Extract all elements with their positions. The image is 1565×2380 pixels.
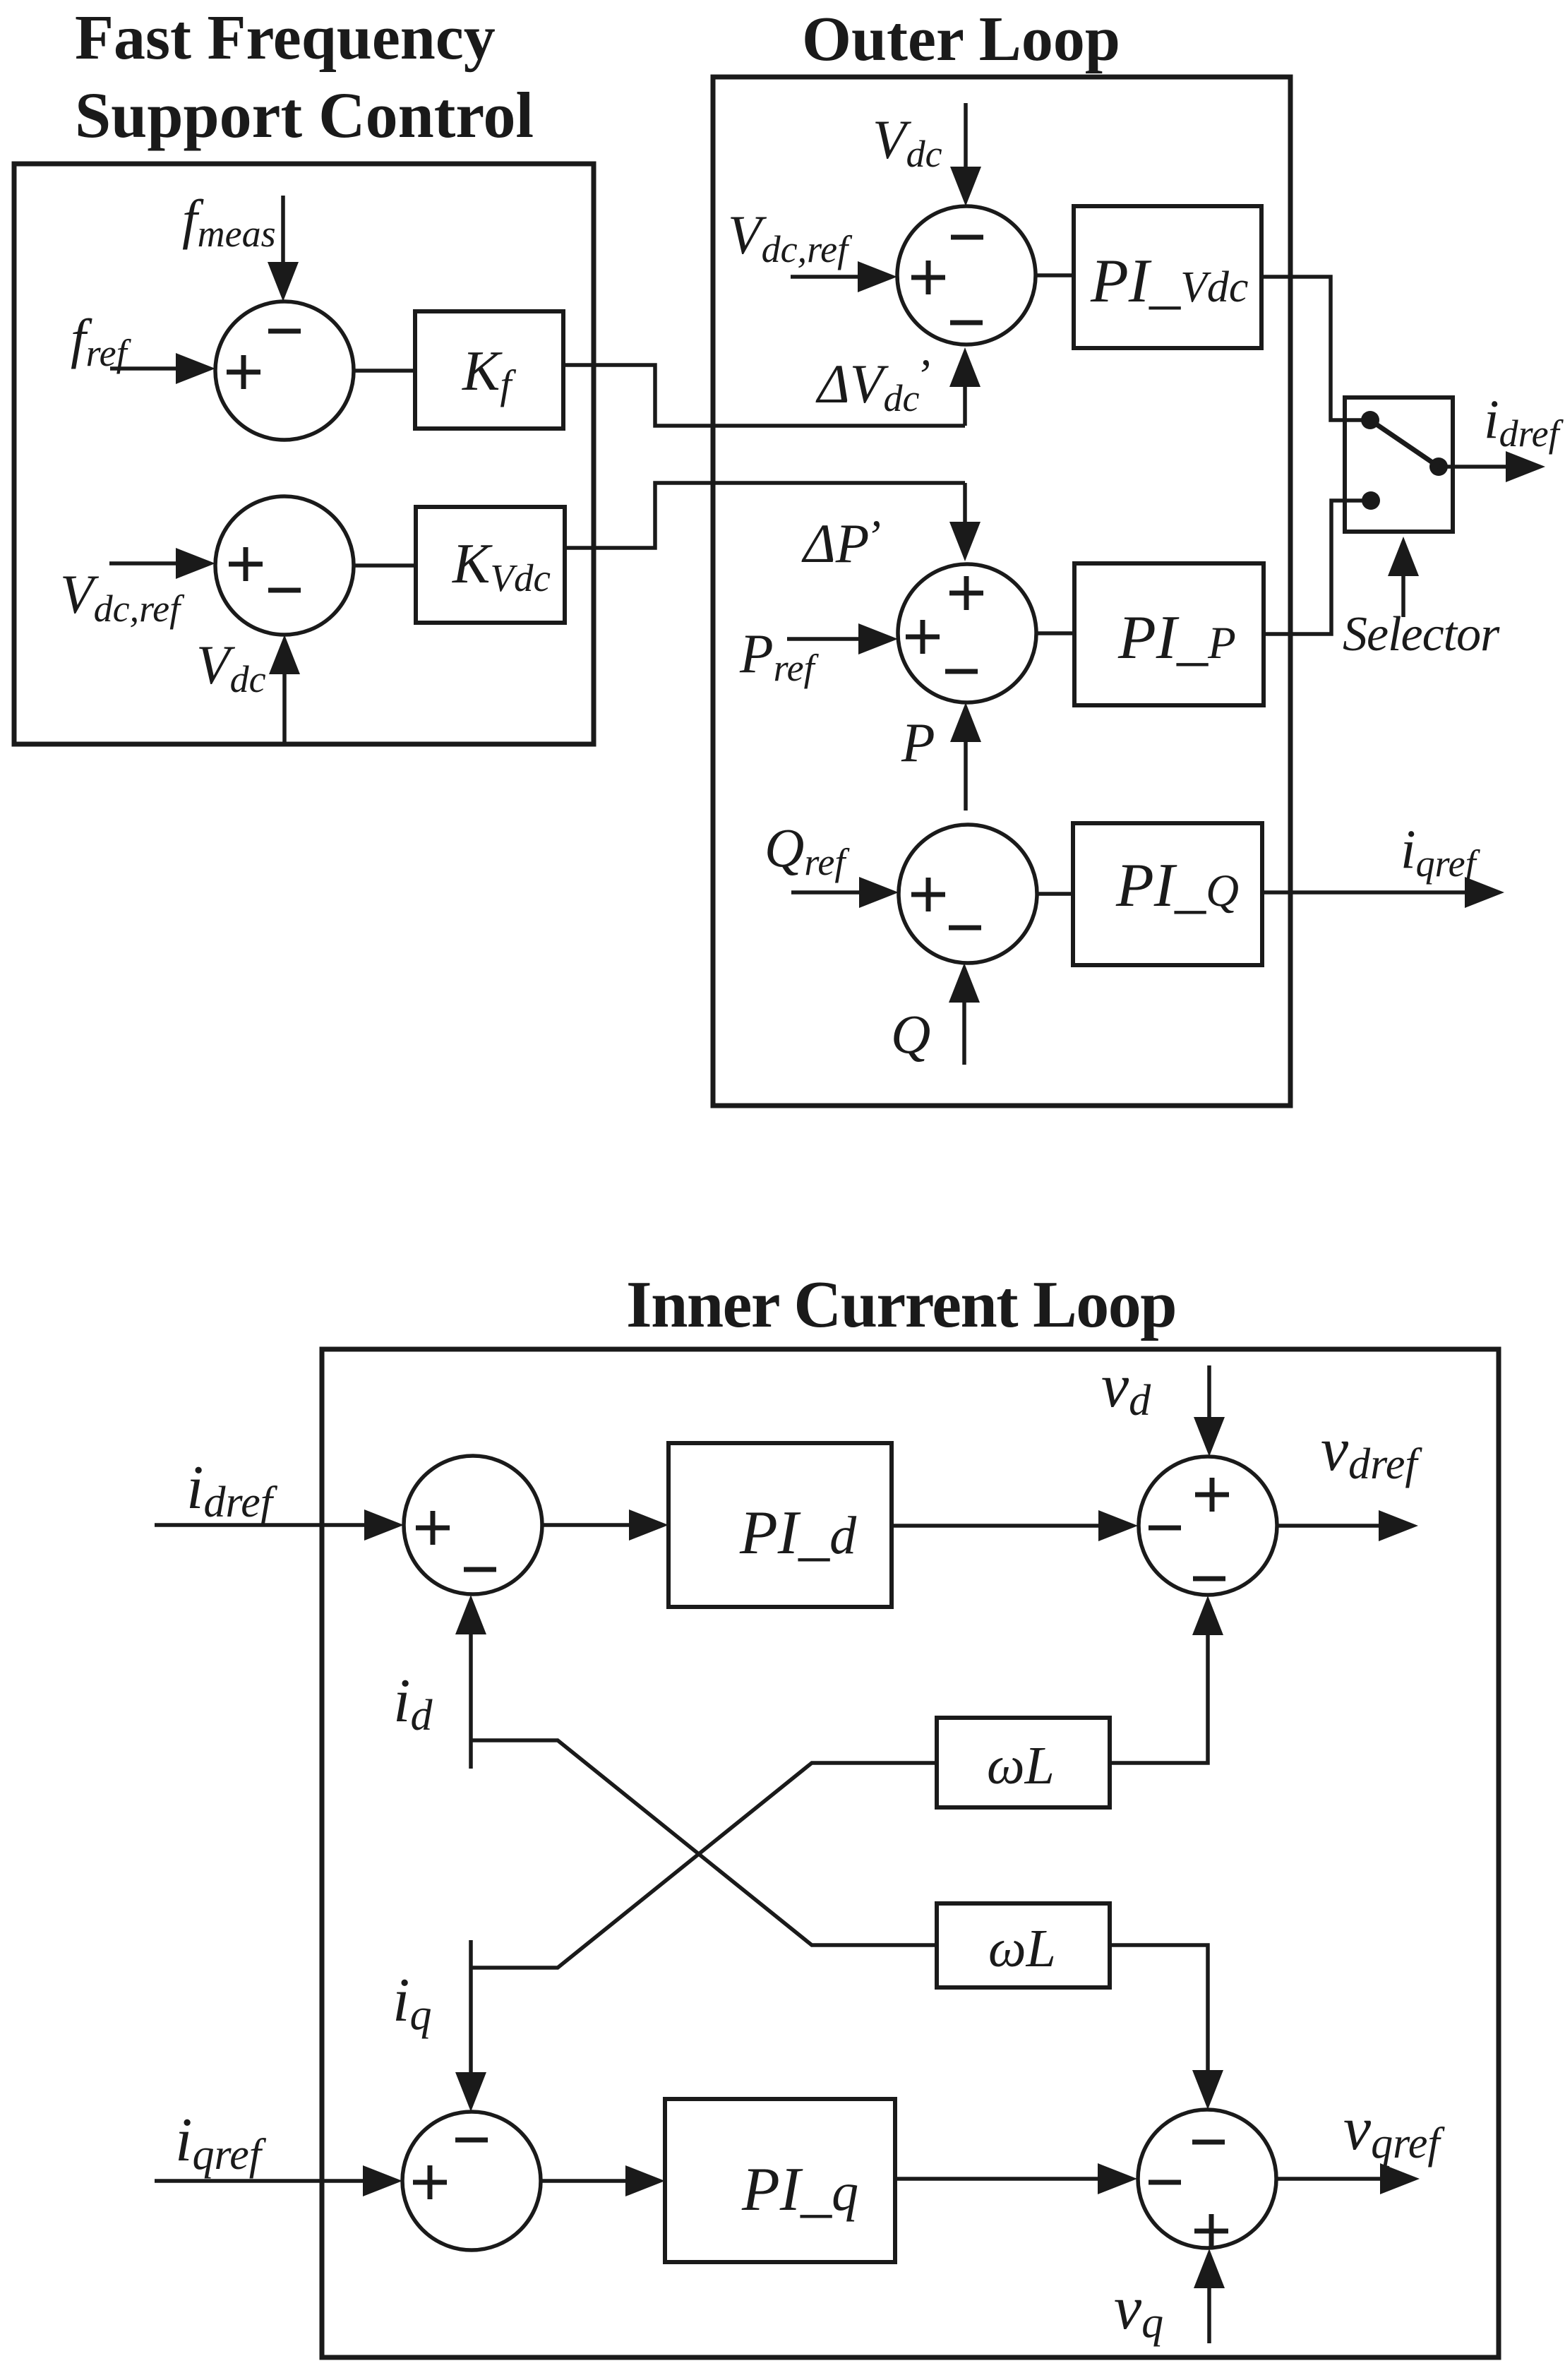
svg-text:P: P (901, 712, 935, 773)
svg-text:Selector: Selector (1343, 607, 1500, 662)
svg-text:’: ’ (915, 350, 930, 402)
svg-text:PI_q: PI_q (741, 2155, 858, 2224)
svg-text:’: ’ (865, 511, 881, 563)
svg-text:Q: Q (891, 1003, 930, 1065)
svg-text:Fast Frequency: Fast Frequency (75, 3, 496, 73)
svg-text:Outer Loop: Outer Loop (802, 4, 1120, 74)
svg-text:ΔP: ΔP (801, 513, 869, 574)
svg-text:ωL: ωL (987, 1736, 1055, 1795)
svg-text:Inner Current Loop: Inner Current Loop (626, 1268, 1176, 1341)
svg-text:ωL: ωL (988, 1919, 1056, 1978)
svg-text:Support Control: Support Control (75, 79, 534, 151)
svg-text:PI_d: PI_d (739, 1499, 857, 1567)
